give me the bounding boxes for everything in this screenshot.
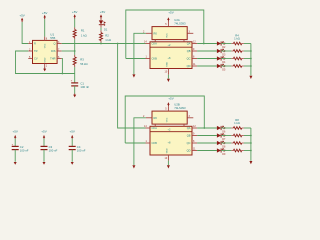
U2 pin 2 R01 [143, 31, 157, 36]
node QA junction U3 [203, 127, 205, 129]
svg-text:GND: GND [44, 57, 46, 62]
ground U1 [43, 67, 46, 71]
power +5V C3 top [41, 129, 46, 138]
wire C2 bottom [14, 150, 16, 162]
capacitor C2 [12, 144, 29, 153]
node bus junction [250, 135, 252, 137]
resistor R1 [73, 27, 87, 39]
wire D2 anode [197, 43, 217, 45]
wire DIS [62, 50, 75, 52]
resistor R2 [100, 30, 112, 42]
resistor bank label upper R4 [234, 33, 240, 40]
svg-text:VCC: VCC [167, 117, 169, 122]
U3 pin 2 R01 [143, 115, 157, 120]
ground U2 R0 [132, 74, 135, 77]
svg-text:R0: R0 [154, 116, 158, 120]
node bus junction [250, 65, 252, 67]
resistor bank label lower R8 [234, 118, 240, 125]
wire +5V to R1 [74, 19, 76, 28]
svg-text:+5V: +5V [19, 14, 24, 18]
U3 pin 10 GND [165, 155, 169, 161]
svg-text:R1: R1 [81, 29, 85, 33]
U3 pin 12 QA [187, 125, 197, 130]
U1 pin 1 GND [44, 57, 47, 67]
svg-text:1 kΩ: 1 kΩ [234, 121, 240, 125]
svg-text:74LS393: 74LS393 [174, 21, 186, 25]
wire THR drop [61, 59, 64, 74]
svg-text:GND: GND [167, 62, 169, 67]
power +5V PWR4 (D1 top) [100, 10, 106, 19]
svg-text:VCC: VCC [44, 43, 46, 48]
resistor D3 series [231, 50, 244, 52]
svg-text:QC: QC [187, 57, 191, 61]
svg-text:THR: THR [50, 57, 55, 61]
wire R2 to Q net [100, 42, 102, 45]
wire D3 anode [197, 50, 217, 52]
U3 pin 14 CKA [144, 125, 157, 130]
wire C3 top [43, 139, 45, 147]
IC U2B 74LS393 lower box [150, 102, 192, 155]
U1 pin 3 Q [53, 41, 61, 46]
wire D9 to bus [244, 150, 251, 152]
wire D3 to bus [244, 50, 251, 52]
U3 pin 3 R02 [187, 115, 193, 118]
svg-text:QA: QA [187, 126, 191, 130]
svg-text:D1: D1 [104, 27, 108, 31]
svg-text:Q: Q [53, 42, 55, 46]
U3 pin 9 QB [187, 133, 197, 138]
wire D8 to bus [244, 142, 251, 144]
svg-text:+5V: +5V [100, 10, 105, 14]
wire D7 to bus [244, 135, 251, 137]
U3 pin 11 QD [187, 148, 197, 153]
svg-text:100 nF: 100 nF [80, 85, 89, 89]
svg-text:+5V: +5V [168, 96, 173, 100]
node QA junction U2 [203, 43, 205, 45]
wire D6 anode [197, 127, 217, 129]
U2 pin 12 QA [187, 41, 197, 46]
IC U2A 74LS393 upper box [150, 18, 192, 69]
LED D5 [217, 64, 226, 71]
wire D9 cathode [221, 150, 231, 152]
svg-text:TR: TR [34, 49, 38, 53]
wire R1 to R3 column [74, 39, 76, 55]
wire D4 anode [197, 58, 217, 60]
wire D3 cathode [221, 50, 231, 52]
LED D8 [217, 141, 226, 148]
svg-text:QC: QC [187, 141, 191, 145]
U2 pin 1 CKB [146, 56, 158, 61]
wire D5 to bus [244, 65, 251, 67]
capacitor C1 [71, 79, 90, 89]
LED D3 [217, 49, 226, 56]
wire lower LED bus [250, 128, 252, 161]
svg-text:QD: QD [187, 149, 191, 153]
U1 pin 5 CV [28, 56, 38, 61]
wire R pin to +5V [22, 22, 28, 44]
U2 pin 5 VCC [165, 22, 168, 27]
wire C4 top [71, 139, 73, 147]
node bus junction [250, 50, 252, 52]
wire upper LED bus [250, 44, 252, 76]
svg-text:+5V: +5V [69, 129, 74, 133]
U2 pin 14 CKA [144, 41, 157, 46]
svg-text:+5V: +5V [72, 10, 77, 14]
wire D5 anode [197, 65, 217, 67]
wire U2 QA to CKB (top rail) [126, 10, 204, 59]
ground C3 [43, 162, 46, 165]
wire C3 bottom [43, 150, 45, 162]
wire CKB U2 [126, 58, 146, 60]
node DIS junction [74, 50, 76, 52]
resistor D2 series [231, 43, 244, 45]
ground lower LED bus [249, 161, 252, 164]
node clock branch junction [117, 43, 119, 45]
svg-text:+5V: +5V [42, 11, 47, 15]
svg-text:R2: R2 [105, 33, 109, 37]
svg-text:555: 555 [50, 36, 55, 40]
wire R3 to C1 [74, 67, 76, 83]
U3 pin 8 QC [187, 140, 197, 145]
svg-text:CV: CV [34, 57, 38, 61]
power +5V PWR1 (reset pullup) [19, 14, 24, 22]
power +5V PWR3 (R1 top) [72, 10, 77, 18]
wire U3 QA to CKB (mid rail) [125, 96, 204, 143]
wire C4 bottom [71, 150, 73, 162]
wire U1 VCC [44, 19, 46, 36]
LED D1 [99, 18, 108, 32]
svg-text:R3: R3 [80, 58, 84, 62]
wire D8 cathode [221, 142, 231, 144]
svg-text:CKB: CKB [152, 57, 158, 61]
wire TR loop [16, 51, 75, 74]
power +5V C4 top [69, 129, 74, 138]
svg-text:74LS393: 74LS393 [174, 106, 186, 110]
svg-text:56 kΩ: 56 kΩ [80, 62, 87, 66]
power +5V PWR6 (U3 VCC) [167, 96, 174, 106]
svg-text:+5V: +5V [12, 129, 17, 133]
svg-text:CKA: CKA [152, 42, 158, 46]
LED D2 [217, 41, 226, 48]
power +5V PWR2 (U1 VCC) [42, 11, 47, 19]
U2 pin 9 QB [187, 48, 197, 53]
wire D6 cathode [221, 127, 231, 129]
wire D4 cathode [221, 58, 231, 60]
svg-text:CKB: CKB [152, 141, 158, 145]
svg-text:100 nF: 100 nF [77, 148, 86, 152]
U1 pin 4 R [28, 41, 36, 46]
resistor D7 series [231, 135, 244, 137]
resistor D9 series [231, 150, 244, 152]
ground U3 R0 [132, 165, 135, 168]
wire D4 to bus [244, 58, 251, 60]
U2 pin 10 GND [165, 69, 169, 75]
svg-text:1 kΩ: 1 kΩ [234, 37, 240, 41]
resistor D8 series [231, 142, 244, 144]
U1 pin 8 VCC [44, 37, 47, 49]
svg-text:QB: QB [187, 134, 191, 138]
svg-text:QB: QB [187, 49, 191, 53]
wire D2 to bus [244, 43, 251, 45]
wire D8 anode [197, 142, 217, 144]
LED D9 [217, 148, 226, 155]
wire C1 to gnd [74, 86, 76, 94]
svg-text:CKA: CKA [152, 126, 158, 130]
svg-text:R: R [34, 42, 36, 46]
svg-text:QD: QD [187, 64, 191, 68]
capacitor C3 [41, 145, 58, 153]
resistor D6 series [231, 127, 244, 129]
ground U3 [167, 161, 170, 169]
power +5V PWR5 (U2 VCC) [167, 10, 174, 21]
U1 pin 6 THR [50, 56, 62, 61]
node bus junction [250, 150, 252, 152]
U2 pin 11 QD [187, 63, 197, 68]
svg-text:1 kΩ: 1 kΩ [105, 38, 111, 42]
node THR junction [62, 73, 64, 75]
svg-text:DIS: DIS [51, 49, 56, 53]
node bus junction [250, 142, 252, 144]
ground upper LED bus [249, 76, 252, 79]
ground U2 [167, 75, 170, 82]
U3 pin 1 CKB [146, 140, 158, 145]
power +5V C2 top [12, 129, 17, 138]
U3 pin 5 VCC [165, 106, 168, 111]
svg-text:+5V: +5V [168, 10, 173, 14]
svg-text:100 nF: 100 nF [49, 148, 58, 152]
wire CKB U3 [125, 142, 145, 144]
wire C2 top [14, 139, 16, 147]
wire D2 cathode [221, 43, 231, 45]
svg-text:VCC: VCC [167, 33, 169, 38]
wire clock to U3 CKA [118, 44, 146, 129]
svg-text:QA: QA [187, 42, 191, 46]
op-amp U1 555 body [33, 33, 58, 64]
wire D6 to bus [244, 127, 251, 129]
wire D9 anode [197, 150, 217, 152]
ground C2 [14, 162, 17, 165]
wire D7 cathode [221, 135, 231, 137]
U1 pin 7 DIS [51, 48, 62, 53]
U2 pin 3 R02 [187, 31, 193, 34]
node R2 junction [100, 43, 102, 45]
wire D5 cathode [221, 65, 231, 67]
node bus junction [250, 58, 252, 60]
U1 pin 2 TR [28, 48, 37, 53]
LED D6 [217, 126, 226, 133]
svg-text:1 kΩ: 1 kΩ [81, 33, 87, 37]
ground C1 [73, 94, 76, 98]
wire D7 anode [197, 135, 217, 137]
ground C4 [71, 162, 74, 165]
wire D1 to R2 [100, 28, 102, 31]
capacitor C4 [69, 145, 86, 153]
wire U2 R0 to ground [134, 33, 146, 74]
wire U3 R0 to ground [134, 118, 146, 165]
U2 pin 8 QC [187, 56, 197, 61]
resistor R3 [73, 55, 87, 67]
svg-text:+5V: +5V [41, 129, 46, 133]
svg-text:GND: GND [167, 148, 169, 153]
svg-text:100 nF: 100 nF [20, 148, 29, 152]
resistor D5 series [231, 65, 244, 67]
LED D7 [217, 133, 226, 140]
wire Q output to U2 CKA [62, 43, 146, 45]
svg-text:R0: R0 [154, 31, 158, 35]
LED D4 [217, 56, 226, 63]
resistor D4 series [231, 58, 244, 60]
